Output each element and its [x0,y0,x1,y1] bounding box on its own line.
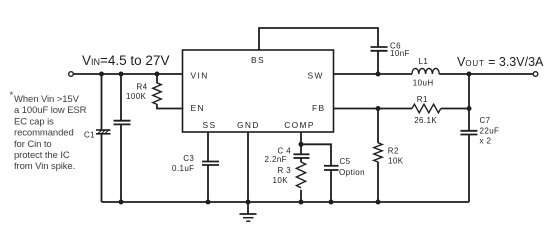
wire C6 bottom lead [377,51,379,74]
wire FB rail right [441,108,469,110]
wire SW rail left [333,73,412,75]
svg-text:100K: 100K [126,92,147,101]
node FB/R1/C7 [467,106,472,111]
wire SS branch upper [207,132,209,162]
svg-text:SS: SS [203,120,217,130]
capacitor C4 [294,154,310,158]
wire VIN rail [73,73,183,75]
svg-text:COMP: COMP [284,120,315,130]
wire EN (R4 bottom to EN pin) [157,104,183,108]
capacitor Cin [114,121,131,125]
svg-text:R2: R2 [388,146,399,155]
input terminal [69,72,74,77]
svg-text:22uF: 22uF [480,127,500,136]
wire FB rail left [333,108,412,110]
svg-text:SW: SW [308,70,324,80]
wire C1 branch lower [101,135,103,203]
op-amp U1 (regulator IC box) [183,50,334,132]
svg-text:C1: C1 [84,131,95,140]
capacitor C3 [202,162,219,166]
svg-text:a 100uF low ESR: a 100uF low ESR [14,105,87,116]
wire C7 branch upper [468,74,470,131]
svg-text:C7: C7 [480,116,491,125]
ground symbol [240,202,257,221]
svg-text:L1: L1 [419,57,429,66]
svg-text:GND: GND [237,120,260,130]
svg-text:from Vin spike.: from Vin spike. [14,161,75,172]
node VOUT/C7 [467,72,472,77]
svg-text:0.1uF: 0.1uF [172,164,194,173]
wire COMP to C5 [301,144,331,166]
svg-text:EC cap is: EC cap is [14,116,54,127]
resistor R3 [296,162,305,188]
capacitor C7 [460,131,477,135]
wire C5 bottom lead [330,170,332,202]
wire Cin branch upper [120,74,122,121]
svg-text:C3: C3 [183,154,194,163]
svg-text:2.2nF: 2.2nF [265,155,287,164]
wire R3 bottom lead [300,190,302,202]
wire C7 branch lower [468,135,470,203]
node SW/C6 [376,72,381,77]
node gnd/R2 [376,200,381,205]
svg-text:*: * [10,90,14,101]
node gnd/Cin [119,200,124,205]
svg-text:for Cin to: for Cin to [14,139,52,150]
wire C1 branch upper [101,74,103,130]
wire BS loop [259,28,378,50]
svg-text:R4: R4 [137,83,148,92]
node VIN/C1 [99,72,104,77]
svg-text:protect the IC: protect the IC [14,150,70,161]
wire C4 to R3 [300,158,302,162]
svg-text:C5: C5 [340,157,351,166]
node VIN/R4 [155,72,160,77]
svg-text:10K: 10K [273,176,289,185]
svg-text:recommanded: recommanded [14,128,74,139]
svg-text:VIN: VIN [191,70,209,80]
wire R4 top lead [156,74,158,83]
node COMP/C5 [299,142,304,147]
svg-text:When Vin >15V: When Vin >15V [14,94,80,105]
label VIN=4.5 to 27V [82,53,169,68]
inductor L1 [412,68,439,74]
note text annotation [10,90,87,172]
svg-text:EN: EN [191,103,205,113]
resistor R2 [374,143,382,162]
resistor R1 [412,104,441,113]
wire GND branch [247,132,249,202]
wire SS branch lower [207,165,209,202]
svg-text:R 3: R 3 [278,166,292,175]
wire SW rail right to output [439,73,533,75]
svg-text:R1: R1 [417,95,428,104]
svg-text:26.1K: 26.1K [414,116,437,125]
svg-text:10nF: 10nF [390,49,410,58]
output terminal [533,72,538,77]
wire R2 bottom lead [377,162,379,202]
wire ground rail [102,201,470,203]
node gnd/C5 [329,200,334,205]
capacitor C5 [324,166,339,170]
svg-text:10uH: 10uH [413,79,434,88]
node VIN/Cin [119,72,124,77]
svg-text:Option: Option [339,168,365,177]
svg-text:10K: 10K [388,156,404,165]
wire COMP branch upper [300,132,302,154]
node gnd/C3 [206,200,211,205]
capacitor C6 [371,47,388,51]
resistor R2 top lead [377,109,379,143]
svg-text:x 2: x 2 [480,137,492,146]
resistor R4 [153,83,161,105]
svg-text:BS: BS [251,55,265,65]
node gnd/R3 [299,200,304,205]
node FB/R2 [376,106,381,111]
wire Cin branch lower [120,124,122,202]
svg-text:FB: FB [312,103,326,113]
node gnd/GND [246,200,251,205]
label VOUT = 3.3V/3A [457,55,544,69]
capacitor C1 (hatched electrolytic symbol) [96,130,111,134]
